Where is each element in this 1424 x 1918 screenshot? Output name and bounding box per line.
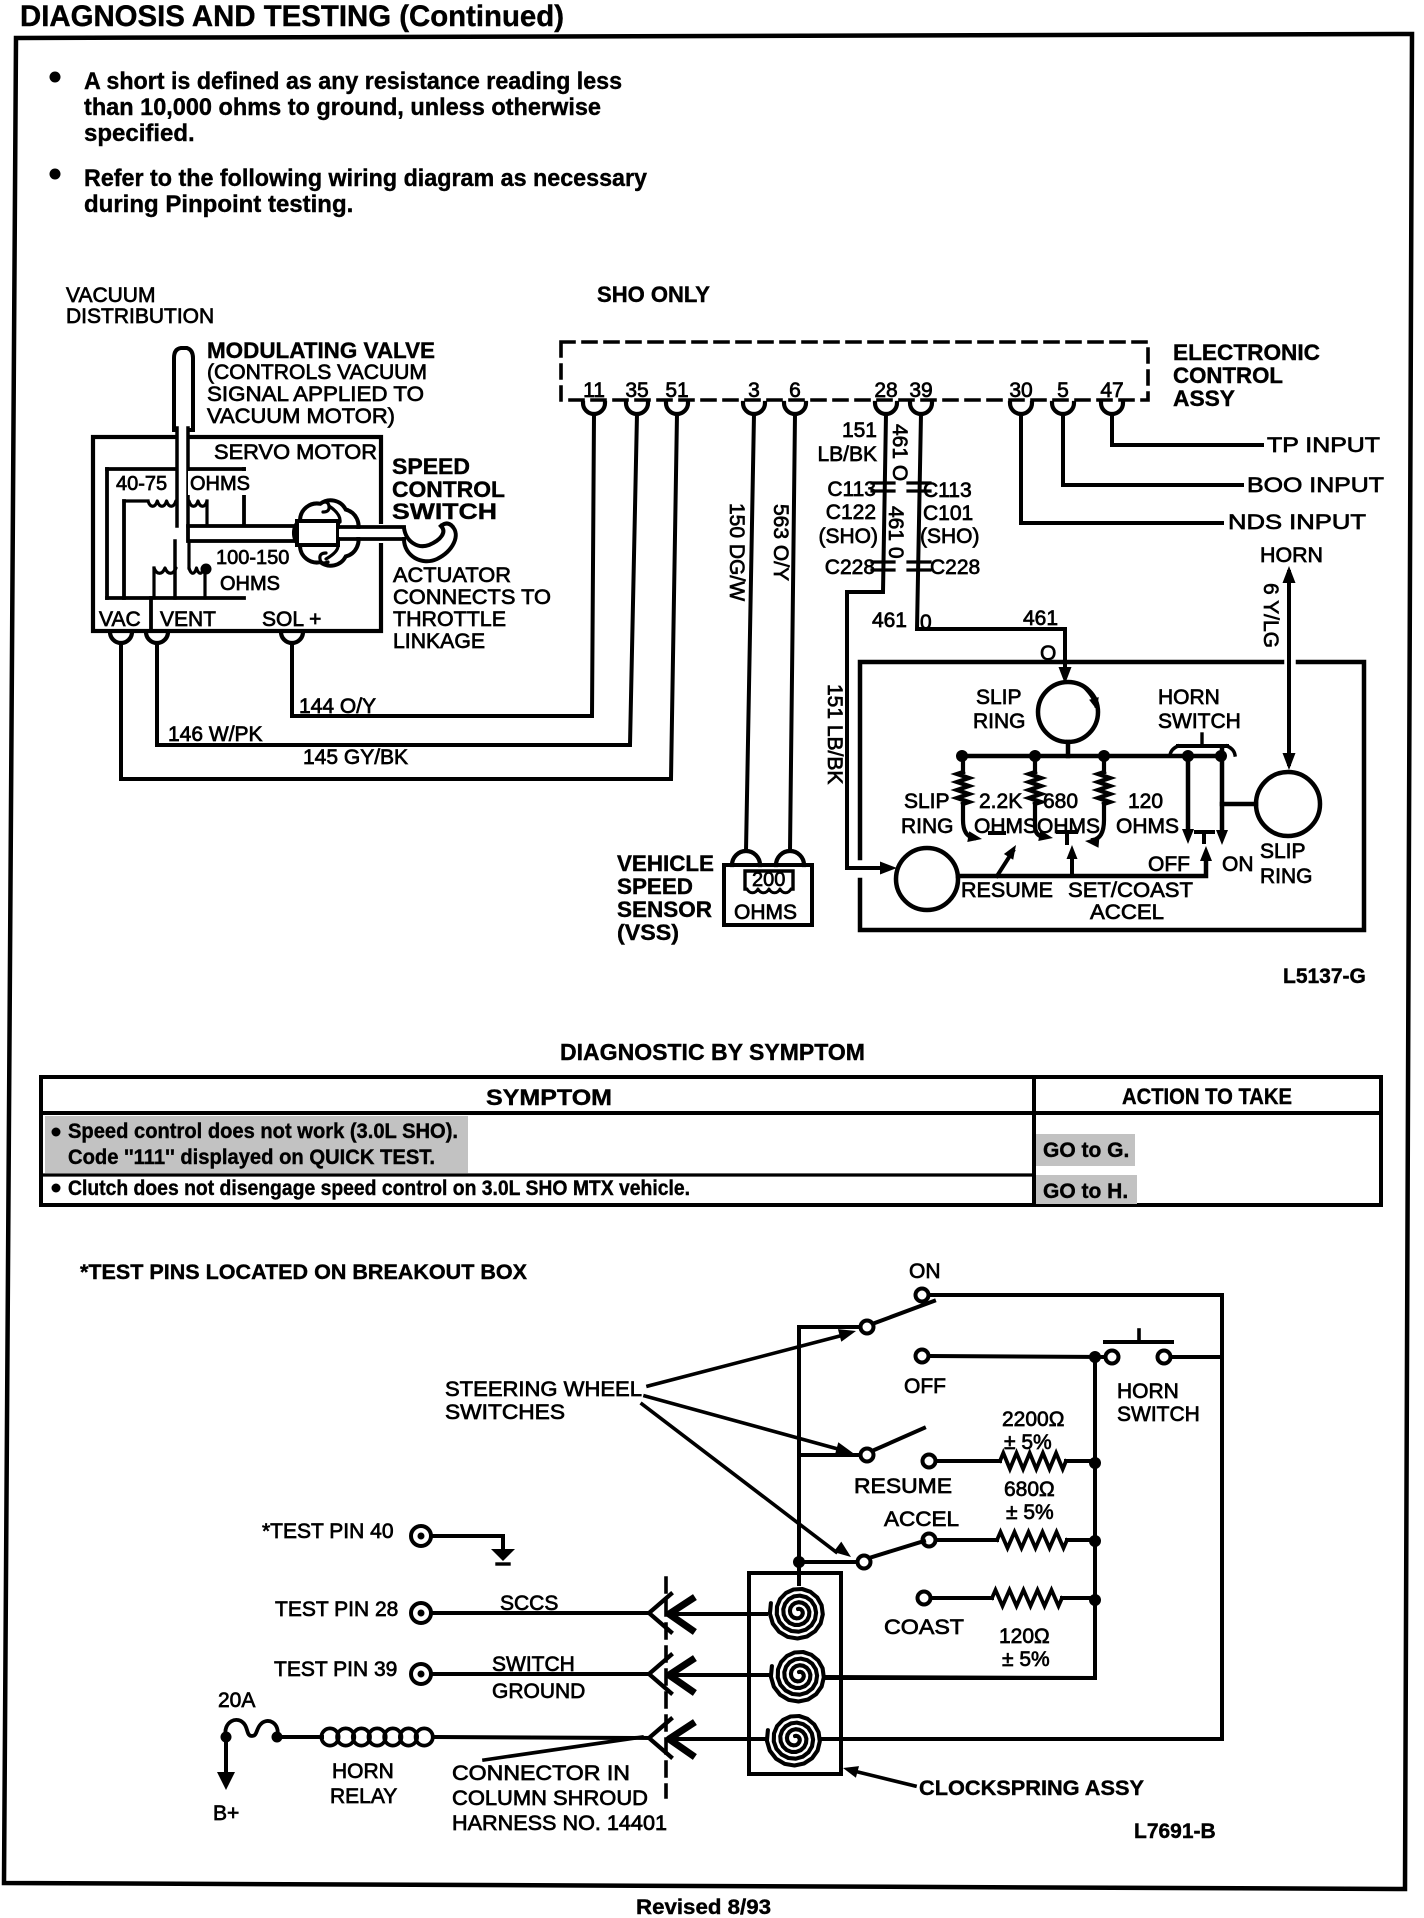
svg-text:200: 200: [752, 869, 785, 891]
pointer arrows to switches: [648, 1336, 840, 1386]
resistor 680: [923, 1534, 936, 1547]
SET/COAST wiper: [1070, 855, 1074, 876]
svg-text:RING: RING: [901, 815, 954, 838]
ON contact: [916, 1289, 929, 1302]
svg-text:ELECTRONIC: ELECTRONIC: [1173, 340, 1320, 365]
table row 1 highlight: [45, 1116, 468, 1173]
svg-text:ON: ON: [909, 1260, 941, 1283]
clockspring assy box: [749, 1573, 841, 1774]
svg-text:151 LB/BK: 151 LB/BK: [823, 684, 846, 784]
bullet note 1: [50, 72, 61, 83]
vehicle speed sensor box: [724, 865, 812, 925]
VAC VENT SOL+ labels: [149, 598, 153, 631]
table row 2 highlight: [1036, 1175, 1137, 1204]
wire 150 DG/W (pin 3 to VSS): [746, 414, 754, 851]
horn switch contacts: [1106, 1351, 1119, 1364]
connector C113/C122 on pin 28 wire: [872, 481, 894, 484]
svg-text:VAC: VAC: [99, 608, 141, 631]
svg-text:0: 0: [920, 611, 932, 634]
svg-text:C113: C113: [827, 478, 876, 501]
svg-text:COLUMN SHROUD: COLUMN SHROUD: [452, 1787, 648, 1810]
svg-text:VACUUM MOTOR): VACUUM MOTOR): [207, 405, 395, 428]
svg-text:SENSOR: SENSOR: [617, 897, 712, 922]
svg-text:OFF: OFF: [1148, 853, 1190, 876]
wire 151 LB/BK (pin 28): [847, 414, 888, 868]
svg-text:144 O/Y: 144 O/Y: [299, 695, 376, 718]
symptom table: [41, 1077, 1381, 1205]
svg-text:TP INPUT: TP INPUT: [1267, 434, 1380, 457]
svg-text:Clutch does not disengage spee: Clutch does not disengage speed control …: [68, 1177, 690, 1200]
svg-text:HORN: HORN: [332, 1760, 394, 1783]
svg-text:THROTTLE: THROTTLE: [393, 608, 506, 631]
svg-text:SPEED: SPEED: [617, 874, 693, 899]
table row 1: [52, 1128, 61, 1137]
ACCEL wiper arm: [869, 1541, 924, 1558]
wire 145 GY/BK (VAC to pin 51): [121, 414, 677, 779]
svg-text:SERVO MOTOR: SERVO MOTOR: [214, 441, 377, 464]
horn relay coil: [277, 1735, 322, 1739]
svg-text:*TEST PIN 40: *TEST PIN 40: [262, 1520, 394, 1543]
svg-text:B+: B+: [213, 1802, 239, 1825]
svg-text:Refer to the following wiring: Refer to the following wiring diagram as…: [84, 165, 648, 192]
svg-text:3: 3: [748, 379, 760, 402]
svg-text:SYMPTOM: SYMPTOM: [486, 1085, 612, 1110]
svg-text:100-150: 100-150: [216, 547, 289, 569]
label CLOCKSPRING ASSY: [850, 1770, 915, 1786]
svg-text:SWITCH: SWITCH: [392, 499, 497, 524]
svg-text:NDS INPUT: NDS INPUT: [1228, 511, 1366, 534]
actuator hook: [404, 526, 456, 561]
wire 144 O/Y (SOL+ to pin 11): [292, 414, 594, 716]
svg-text:C228: C228: [930, 556, 980, 579]
ground symbol: [501, 1536, 505, 1549]
svg-text:± 5%: ± 5%: [1002, 1648, 1050, 1671]
bullet note 2: [50, 169, 61, 180]
svg-text:SWITCH: SWITCH: [1158, 710, 1241, 733]
wire to NDS INPUT (pin 30): [1021, 414, 1222, 523]
svg-text:DIAGNOSIS AND TESTING (Continu: DIAGNOSIS AND TESTING (Continued): [20, 0, 564, 33]
resistor 120: [918, 1592, 931, 1605]
svg-text:CLOCKSPRING ASSY: CLOCKSPRING ASSY: [919, 1777, 1144, 1800]
resistor 680 OHMS: [1033, 756, 1037, 772]
resistor 2200: [923, 1455, 936, 1468]
servo terminals: [110, 632, 132, 643]
svg-text:146 W/PK: 146 W/PK: [168, 723, 263, 746]
svg-text:LINKAGE: LINKAGE: [393, 630, 485, 653]
svg-text:RING: RING: [1260, 865, 1313, 888]
winding 40-75 ohms coil: [124, 499, 148, 502]
svg-text:± 5%: ± 5%: [1004, 1431, 1052, 1454]
svg-text:28: 28: [874, 379, 897, 402]
svg-text:(SHO): (SHO): [920, 525, 980, 548]
svg-text:TEST PIN 39: TEST PIN 39: [274, 1658, 397, 1681]
svg-text:C122: C122: [826, 501, 876, 524]
svg-text:51: 51: [665, 379, 688, 402]
svg-text:RELAY: RELAY: [330, 1785, 397, 1808]
svg-text:RESUME: RESUME: [854, 1475, 952, 1498]
svg-text:SOL +: SOL +: [262, 608, 321, 631]
svg-text:OHMS: OHMS: [190, 473, 250, 495]
svg-text:2200Ω: 2200Ω: [1002, 1408, 1064, 1431]
wire 146 W/PK (VENT to pin 35): [157, 414, 637, 745]
connector C228 on pin 28 wire: [872, 560, 894, 563]
svg-text:OHMS: OHMS: [220, 573, 280, 595]
slip ring 3: [1256, 772, 1320, 836]
left bus: [799, 1327, 860, 1584]
svg-text:OFF: OFF: [904, 1375, 946, 1398]
svg-text:MODULATING VALVE: MODULATING VALVE: [207, 338, 435, 363]
svg-text:GO to G.: GO to G.: [1043, 1139, 1129, 1162]
svg-text:(VSS): (VSS): [617, 920, 679, 945]
svg-text:RING: RING: [973, 710, 1026, 733]
svg-text:35: 35: [625, 379, 648, 402]
svg-text:Code ''111'' displayed on QUIC: Code ''111'' displayed on QUICK TEST.: [68, 1146, 435, 1169]
svg-text:680: 680: [1043, 790, 1078, 813]
actuator bar: [188, 526, 297, 541]
svg-text:120: 120: [1128, 790, 1163, 813]
horn switch contact bar: [1178, 744, 1227, 748]
svg-text:SLIP: SLIP: [904, 790, 950, 813]
right resistor bus: [826, 1357, 1095, 1678]
actuator shaft: [338, 525, 404, 529]
svg-text:A short is defined as any resi: A short is defined as any resistance rea…: [84, 68, 622, 95]
svg-text:STEERING WHEEL: STEERING WHEEL: [445, 1378, 642, 1401]
svg-text:151: 151: [842, 419, 877, 442]
svg-text:(CONTROLS VACUUM: (CONTROLS VACUUM: [207, 361, 427, 384]
svg-text:GROUND: GROUND: [492, 1680, 585, 1703]
svg-text:COAST: COAST: [884, 1616, 964, 1639]
svg-text:SET/COAST: SET/COAST: [1068, 879, 1193, 902]
connector C113/C101 on pin 39 wire: [908, 481, 930, 484]
table row 2: [52, 1184, 61, 1193]
svg-text:11: 11: [583, 379, 605, 402]
connector C228 on pin 39 wire: [908, 560, 930, 563]
svg-text:461 O: 461 O: [888, 424, 911, 481]
clockspring coil 3: [767, 1716, 820, 1766]
svg-text:CONNECTS TO: CONNECTS TO: [393, 586, 551, 609]
resistor 2.2K OHMS: [961, 756, 965, 772]
svg-text:HORN: HORN: [1260, 544, 1323, 567]
wire 6 Y/LG to horn: [1287, 572, 1291, 764]
svg-text:39: 39: [909, 379, 932, 402]
svg-text:2.2K: 2.2K: [979, 790, 1022, 813]
svg-text:SLIP: SLIP: [1260, 840, 1306, 863]
svg-text:RESUME: RESUME: [961, 879, 1053, 902]
svg-text:5: 5: [1057, 379, 1069, 402]
ON/OFF wiper: [872, 1301, 934, 1324]
svg-text:HORN: HORN: [1117, 1380, 1179, 1403]
RESUME wiper arm: [872, 1428, 924, 1451]
svg-text:Speed control does not work (3: Speed control does not work (3.0L SHO).: [68, 1120, 458, 1143]
svg-text:HARNESS NO. 14401: HARNESS NO. 14401: [452, 1812, 667, 1835]
svg-text:30: 30: [1009, 379, 1032, 402]
servo gear wheel: [294, 500, 359, 565]
horn switch vertical: [1220, 748, 1225, 835]
svg-text:VENT: VENT: [160, 608, 216, 631]
svg-text:40-75: 40-75: [116, 473, 167, 495]
valve stem: [178, 428, 187, 528]
svg-text:20A: 20A: [218, 1689, 255, 1712]
svg-text:C228: C228: [825, 556, 875, 579]
steering wheel switch box: [860, 662, 1364, 930]
svg-text:GO to H.: GO to H.: [1043, 1180, 1128, 1203]
svg-text:than 10,000 ohms to ground, un: than 10,000 ohms to ground, unless other…: [84, 94, 601, 121]
svg-text:6: 6: [789, 379, 801, 402]
svg-text:SCCS: SCCS: [500, 1592, 558, 1615]
svg-text:SWITCH: SWITCH: [492, 1653, 575, 1676]
resistor bus: [962, 754, 1221, 759]
svg-text:6 Y/LG: 6 Y/LG: [1259, 583, 1282, 648]
coil 2 to resistor bus wire: [826, 1677, 1095, 1678]
200 ohms element: [745, 871, 793, 889]
svg-text:SLIP: SLIP: [976, 686, 1022, 709]
coil 3 to horn feed wire: [822, 1737, 1222, 1741]
svg-text:120Ω: 120Ω: [999, 1625, 1050, 1648]
svg-text:L7691-B: L7691-B: [1134, 1820, 1216, 1843]
connector chevron 3: [649, 1719, 671, 1757]
svg-text:563 O/Y: 563 O/Y: [769, 504, 792, 581]
wire 563 O/Y (pin 6 to VSS): [790, 414, 795, 851]
svg-text:± 5%: ± 5%: [1006, 1501, 1054, 1524]
wire ON to horn feed: [929, 1295, 1222, 1739]
clockspring coil 1: [770, 1589, 823, 1639]
clockspring coil 2: [771, 1652, 824, 1702]
svg-text:ACCEL: ACCEL: [1090, 901, 1164, 924]
svg-text:ACTION TO TAKE: ACTION TO TAKE: [1122, 1084, 1292, 1109]
connector chevron 1: [649, 1594, 671, 1632]
svg-text:TEST PIN 28: TEST PIN 28: [275, 1598, 398, 1621]
svg-text:LB/BK: LB/BK: [817, 443, 877, 466]
svg-text:145 GY/BK: 145 GY/BK: [303, 746, 408, 769]
svg-text:680Ω: 680Ω: [1004, 1478, 1055, 1501]
gear detail curls: [321, 502, 340, 522]
svg-text:specified.: specified.: [84, 120, 195, 147]
label CONNECTOR IN COLUMN SHROUD HARNESS NO. 14401: [484, 1737, 642, 1760]
servo inner winding box: [107, 467, 244, 471]
svg-text:461: 461: [1023, 607, 1058, 630]
svg-text:C101: C101: [923, 502, 973, 525]
svg-text:ASSY: ASSY: [1173, 386, 1235, 411]
slip ring 1: [1038, 682, 1098, 742]
svg-text:L5137-G: L5137-G: [1283, 965, 1366, 988]
svg-text:*TEST PINS LOCATED ON BREAKOUT: *TEST PINS LOCATED ON BREAKOUT BOX: [80, 1261, 527, 1284]
svg-text:461 0: 461 0: [884, 506, 907, 559]
svg-text:VACUUM: VACUUM: [66, 284, 155, 307]
wire 461 O (pin 39): [917, 414, 1065, 677]
svg-text:ACCEL: ACCEL: [884, 1508, 959, 1531]
svg-text:C113: C113: [923, 479, 972, 502]
svg-text:ON: ON: [1222, 853, 1254, 876]
connector chevron 2: [649, 1655, 671, 1693]
svg-text:SPEED: SPEED: [392, 454, 470, 479]
svg-text:HORN: HORN: [1158, 686, 1220, 709]
svg-text:CONTROL: CONTROL: [1173, 363, 1283, 388]
svg-text:DISTRIBUTION: DISTRIBUTION: [66, 305, 214, 328]
wire to BOO INPUT (pin 5): [1063, 414, 1242, 485]
svg-text:SHO ONLY: SHO ONLY: [597, 282, 710, 307]
RESUME wiper: [997, 851, 1013, 876]
svg-text:OHMS: OHMS: [1116, 815, 1179, 838]
winding 100-150 ohms coil: [154, 568, 176, 573]
OFF contact: [916, 1350, 929, 1363]
svg-text:(SHO): (SHO): [819, 525, 879, 548]
svg-text:150 DG/W: 150 DG/W: [725, 503, 748, 601]
modulating valve tube: [174, 348, 193, 430]
svg-text:SIGNAL APPLIED TO: SIGNAL APPLIED TO: [207, 383, 424, 406]
contact bus from slip ring 2: [958, 855, 1206, 876]
OFF contact: [1186, 756, 1191, 834]
dashed connector split line: [664, 1578, 668, 1797]
svg-text:SWITCH: SWITCH: [1117, 1403, 1200, 1426]
resistor 120 OHMS: [1102, 756, 1106, 772]
svg-text:during Pinpoint testing.: during Pinpoint testing.: [84, 191, 353, 218]
svg-text:OHMS: OHMS: [734, 901, 797, 924]
svg-text:VEHICLE: VEHICLE: [617, 851, 714, 876]
electronic control assy dashed box: [561, 342, 1148, 400]
svg-text:DIAGNOSTIC BY SYMPTOM: DIAGNOSTIC BY SYMPTOM: [560, 1039, 865, 1065]
wire to TP INPUT (pin 47): [1112, 414, 1262, 445]
svg-text:ACTUATOR: ACTUATOR: [393, 564, 511, 587]
svg-text:OHMS: OHMS: [1037, 815, 1100, 838]
svg-text:461: 461: [872, 609, 907, 632]
svg-text:SWITCHES: SWITCHES: [445, 1401, 565, 1424]
switch pivot 1: [861, 1321, 874, 1334]
stub to slip ring 3: [1222, 802, 1256, 807]
svg-text:CONNECTOR IN: CONNECTOR IN: [452, 1762, 630, 1785]
servo motor box: [93, 437, 381, 631]
gear hub: [297, 521, 338, 545]
slip ring 2: [896, 848, 958, 910]
svg-text:BOO INPUT: BOO INPUT: [1247, 474, 1384, 497]
svg-text:47: 47: [1100, 379, 1123, 402]
svg-text:Revised 8/93: Revised 8/93: [636, 1896, 771, 1918]
